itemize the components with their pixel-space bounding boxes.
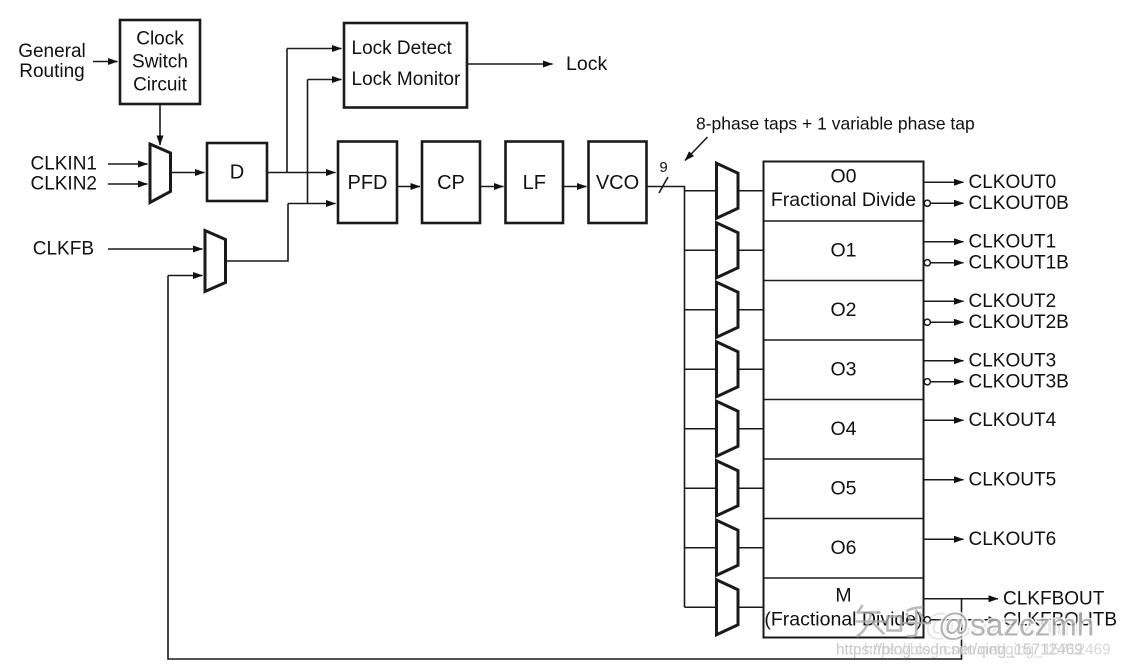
svg-text:Fractional Divide: Fractional Divide (771, 189, 916, 211)
svg-text:O0: O0 (830, 165, 856, 187)
svg-text:Switch: Switch (132, 52, 188, 73)
svg-text:CLKOUT5: CLKOUT5 (969, 469, 1057, 490)
svg-text:CLKOUT2: CLKOUT2 (969, 291, 1057, 312)
svg-text:CLKOUT0: CLKOUT0 (969, 172, 1057, 193)
svg-text:O2: O2 (830, 299, 856, 321)
svg-text:CLKOUT3: CLKOUT3 (969, 350, 1057, 371)
svg-text:D: D (230, 162, 244, 184)
svg-text:CLKIN1: CLKIN1 (30, 154, 97, 175)
svg-text:CLKOUT4: CLKOUT4 (969, 410, 1057, 431)
svg-text:Routing: Routing (19, 61, 85, 82)
svg-text:8-phase taps + 1 variable phas: 8-phase taps + 1 variable phase tap (696, 114, 975, 134)
svg-text:CLKFB: CLKFB (33, 239, 94, 260)
svg-text:CLKOUT3B: CLKOUT3B (969, 371, 1069, 392)
svg-text:Lock Monitor: Lock Monitor (352, 69, 461, 90)
svg-text:O5: O5 (830, 477, 856, 499)
svg-text:O1: O1 (830, 239, 856, 261)
svg-text:CLKIN2: CLKIN2 (30, 174, 97, 195)
svg-text:Clock: Clock (136, 29, 184, 50)
svg-text:Lock: Lock (566, 53, 607, 75)
svg-text:Circuit: Circuit (133, 75, 188, 96)
svg-text:CLKOUT1: CLKOUT1 (969, 231, 1057, 252)
svg-text:(Fractional Divide): (Fractional Divide) (764, 609, 922, 631)
svg-text:9: 9 (659, 159, 667, 176)
svg-text:CLKOUT6: CLKOUT6 (969, 529, 1057, 550)
svg-text:O4: O4 (830, 418, 856, 440)
svg-text:O6: O6 (830, 537, 856, 559)
svg-text:General: General (18, 41, 86, 62)
svg-text:CLKOUT1B: CLKOUT1B (969, 252, 1069, 273)
svg-text:M: M (835, 585, 851, 607)
svg-text:@sazczmh: @sazczmh (938, 607, 1094, 643)
svg-text:LF: LF (523, 172, 546, 194)
svg-text:VCO: VCO (596, 172, 639, 194)
svg-text:Lock Detect: Lock Detect (352, 38, 453, 59)
svg-text:https://blog.csdn.net/qing_157: https://blog.csdn.net/qing_15712469 (864, 642, 1111, 659)
svg-text:O3: O3 (830, 358, 856, 380)
svg-text:CLKOUT2B: CLKOUT2B (969, 312, 1069, 333)
svg-text:PFD: PFD (348, 172, 388, 194)
svg-text:CLKOUT0B: CLKOUT0B (969, 193, 1069, 214)
svg-text:CP: CP (437, 172, 465, 194)
